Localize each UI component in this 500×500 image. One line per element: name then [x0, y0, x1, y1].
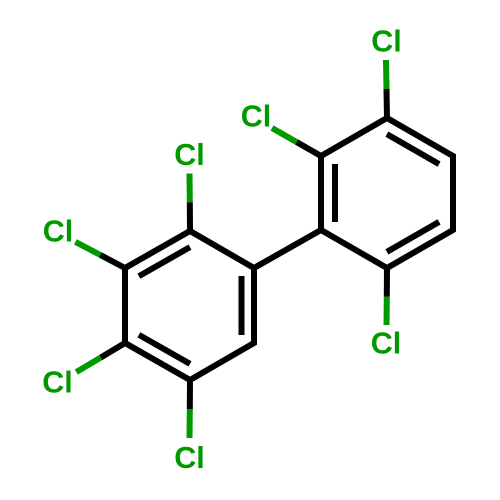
svg-text:Cl: Cl — [371, 327, 402, 361]
svg-text:Cl: Cl — [174, 138, 205, 172]
svg-text:Cl: Cl — [371, 25, 402, 59]
svg-text:Cl: Cl — [241, 100, 272, 134]
svg-text:Cl: Cl — [43, 214, 74, 248]
svg-text:Cl: Cl — [42, 365, 73, 399]
svg-text:Cl: Cl — [174, 441, 205, 475]
